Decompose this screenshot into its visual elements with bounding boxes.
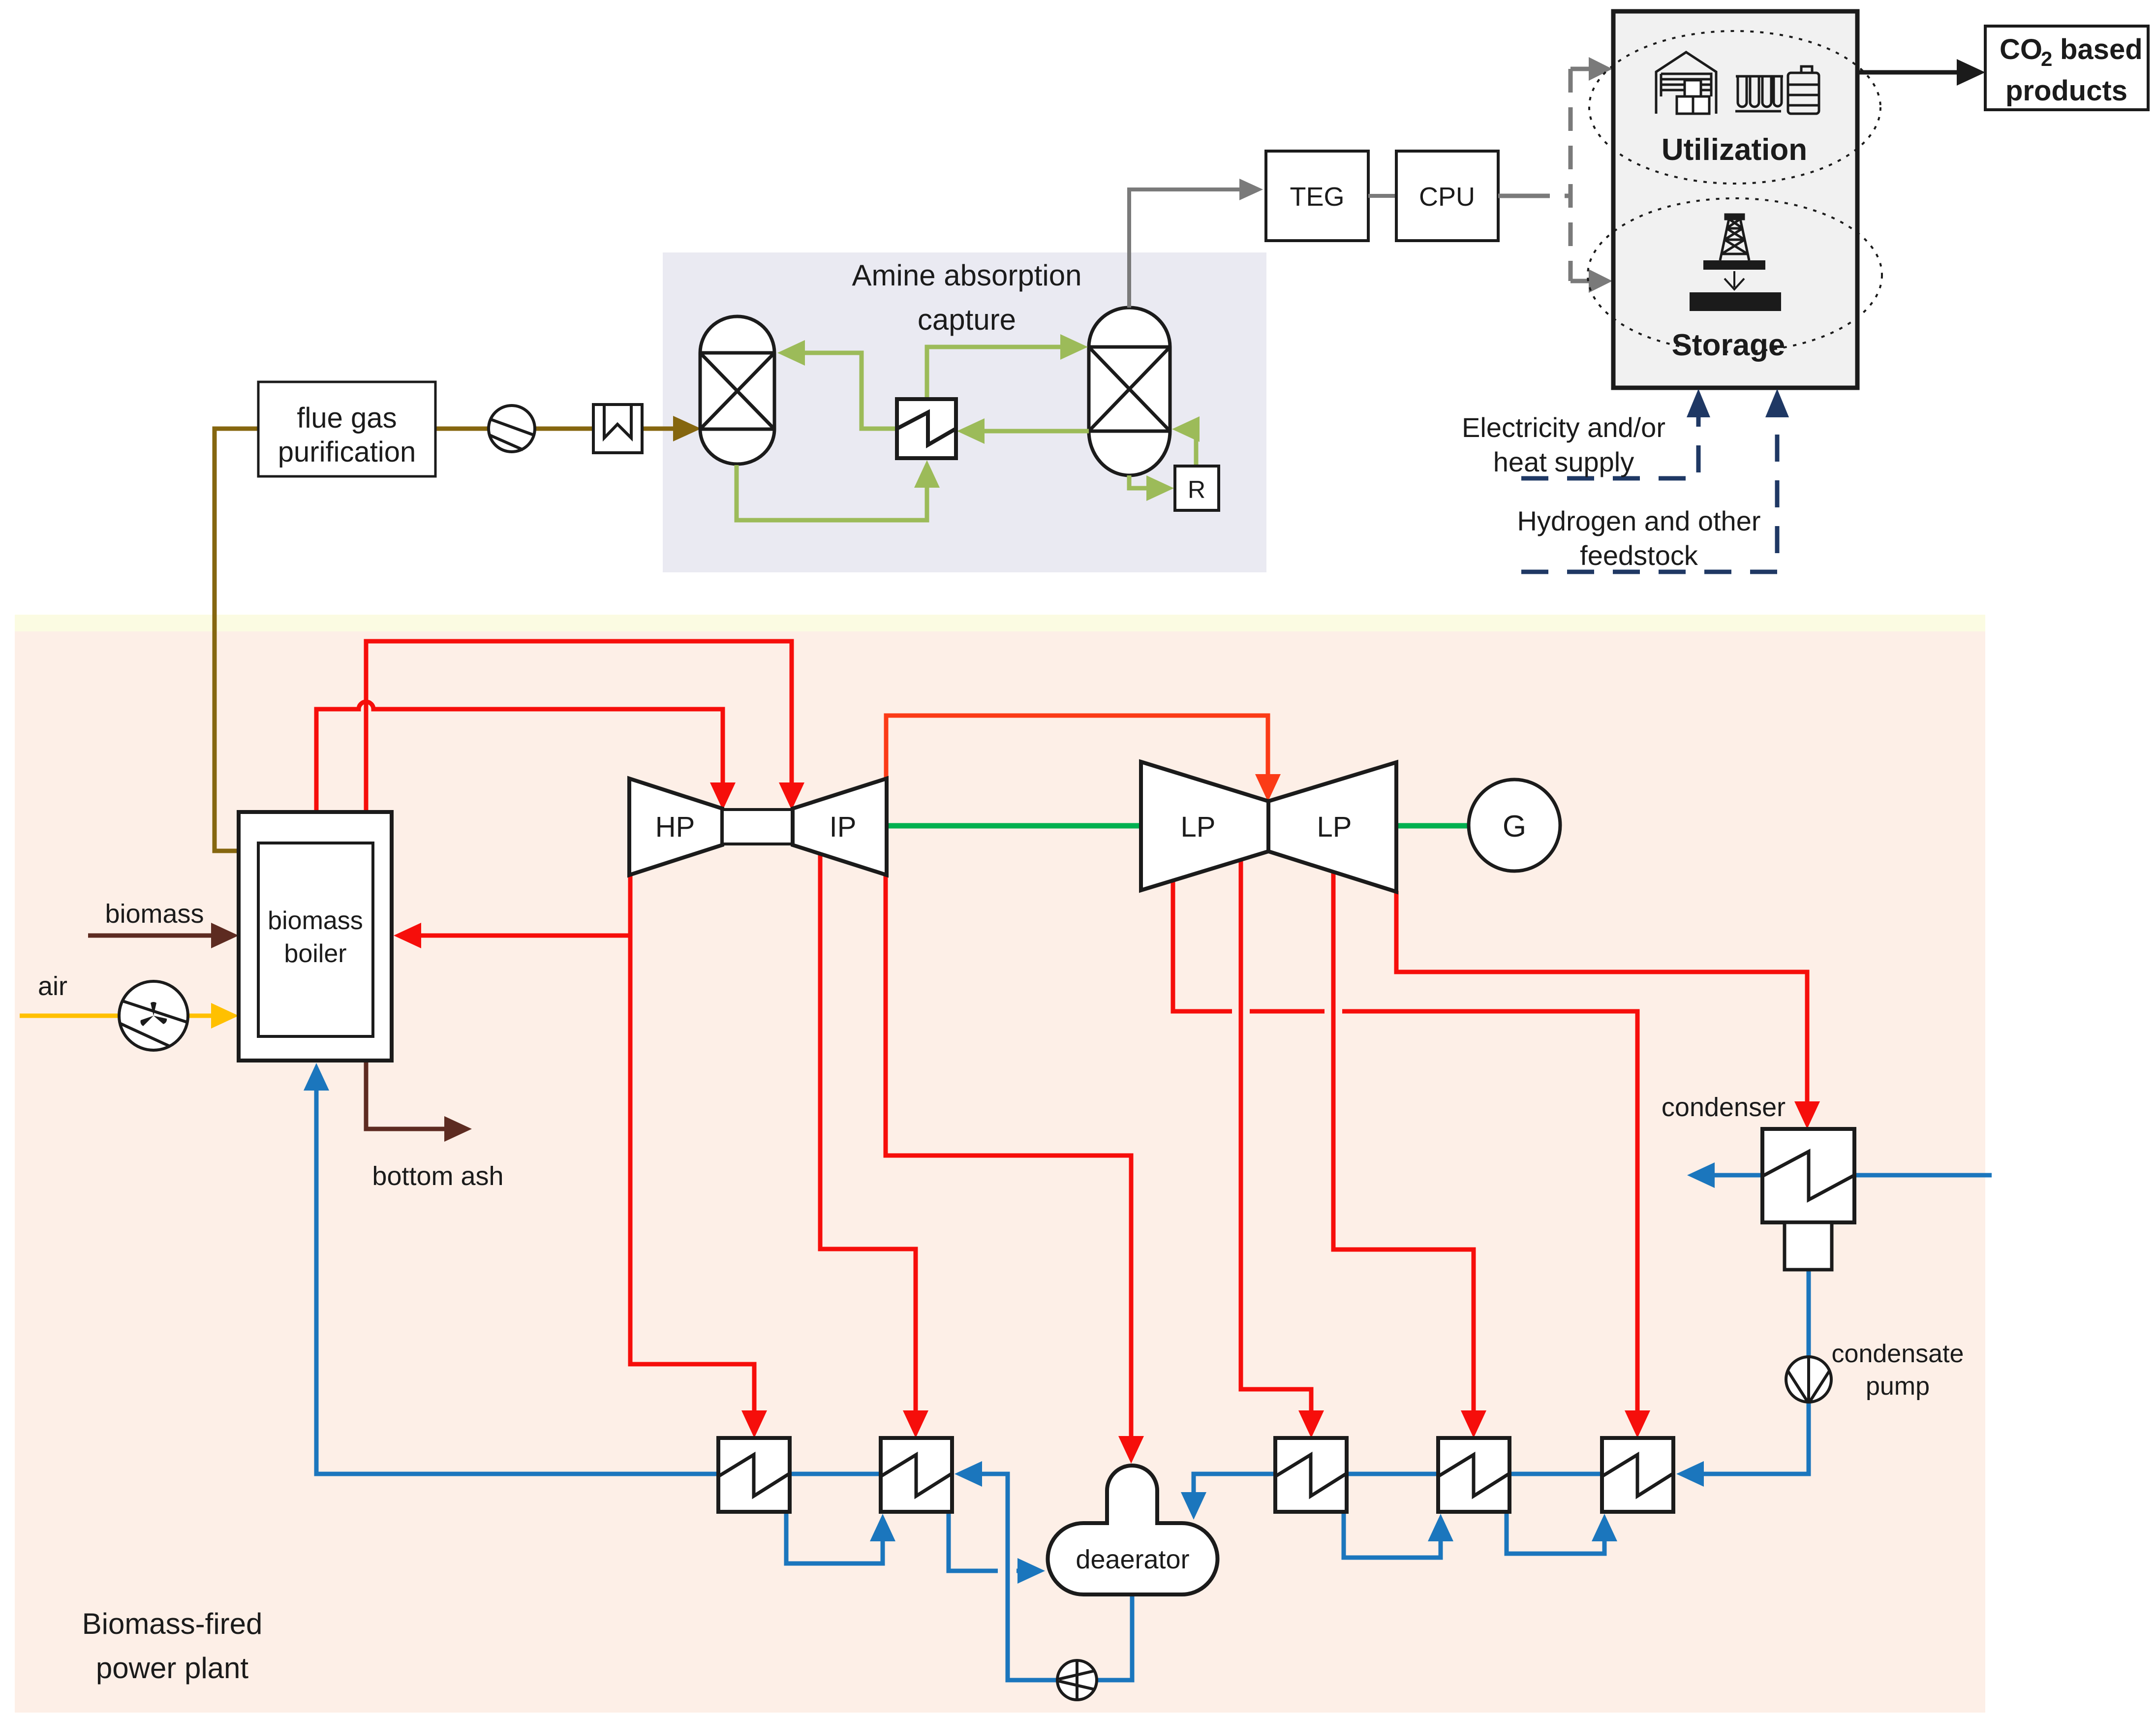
FWH6 feedwater heater: [1602, 1438, 1673, 1512]
wire green generator shaft IP to LP: [887, 823, 1141, 829]
generator G circle: [1469, 780, 1560, 871]
HP IP connecting rect: [722, 810, 793, 844]
TEG box: [1266, 151, 1368, 241]
HP turbine: [629, 779, 722, 875]
wire navy dashed hydrogen feedstock arrow: [1521, 416, 1777, 572]
svg-text:Storage: Storage: [1672, 328, 1786, 362]
storage reservoir black bar: [1690, 292, 1781, 311]
filter symbol box: [593, 405, 642, 453]
svg-text:feedstock: feedstock: [1580, 540, 1698, 571]
wire flue gas olive line from purification box to boiler: [215, 429, 258, 851]
amine heat exchanger: [897, 399, 956, 458]
svg-text:based: based: [2060, 33, 2143, 65]
LP turbine 2: [1268, 762, 1396, 892]
wire flue gas olive line purification to blower: [435, 427, 489, 431]
absorber column: [700, 316, 774, 464]
co2 based products box: [1985, 26, 2148, 110]
wire blue condensate FWH6 to FWH5: [1509, 1472, 1602, 1476]
wire red HP exhaust extraction to FWH1: [630, 936, 754, 1412]
wire gray TEG to CPU connector: [1368, 194, 1396, 198]
derrick platform black bar: [1703, 260, 1765, 270]
wire gray CPU outlet stub: [1498, 194, 1526, 198]
svg-text:biomass: biomass: [105, 899, 204, 929]
wire blue feedwater FWH2 to FWH1: [790, 1472, 881, 1476]
svg-text:TEG: TEG: [1290, 182, 1344, 212]
wire red LP2 exhaust to condenser: [1396, 891, 1807, 1103]
svg-text:LP: LP: [1181, 811, 1216, 843]
wire flue gas olive line blower to filter: [534, 427, 593, 431]
svg-text:Amine absorption: Amine absorption: [852, 259, 1082, 292]
svg-text:Biomass-fired: Biomass-fired: [82, 1607, 263, 1640]
wire green reboiler R return to stripper: [1196, 429, 1198, 466]
wire red IP extraction to FWH2: [820, 855, 916, 1412]
biomass boiler outer box: [239, 812, 392, 1061]
IP turbine: [793, 779, 887, 875]
wire red LP1 extraction to FWH6 with gaps at crossings: [1173, 880, 1637, 1412]
condenser box with zigzag: [1762, 1129, 1854, 1222]
wire green rich amine HX top to stripper top: [927, 347, 1062, 399]
flue gas blower circle: [489, 406, 535, 452]
svg-text:G: G: [1503, 810, 1526, 843]
wire red LP1 extraction to FWH4: [1241, 860, 1311, 1412]
wire orange crossover IP to LP turbines: [886, 716, 1268, 780]
svg-text:condensate: condensate: [1832, 1340, 1964, 1368]
svg-text:products: products: [2005, 75, 2127, 107]
FWH4 feedwater heater: [1275, 1438, 1347, 1512]
wire red cold reheat HP exhaust to boiler: [419, 874, 630, 936]
stripper column: [1089, 308, 1170, 475]
barrel icon: [1787, 66, 1820, 114]
wire blue drain FWH2 to deaerator with gap at pump line: [949, 1512, 1019, 1571]
wire blue feedwater FWH1 to boiler: [316, 1089, 718, 1474]
wire black arrow utilization box to co2 products: [1857, 70, 1961, 75]
svg-text:boiler: boiler: [284, 939, 346, 968]
wire maroon biomass feed arrow: [88, 934, 213, 938]
svg-text:2: 2: [2041, 47, 2052, 70]
condensate pump circle: [1786, 1357, 1831, 1402]
svg-text:Hydrogen and other: Hydrogen and other: [1517, 505, 1760, 536]
wire blue drain FWH5 to FWH6: [1507, 1512, 1604, 1554]
svg-text:power plant: power plant: [96, 1652, 249, 1685]
svg-text:R: R: [1188, 476, 1205, 503]
wire gray dashed CPU to utilization and storage: [1526, 69, 1594, 281]
wire blue condensate FWH4 to deaerator: [1194, 1474, 1275, 1494]
svg-text:biomass: biomass: [268, 906, 363, 935]
air fan circle: [119, 981, 188, 1050]
wire navy dashed electricity supply arrow: [1521, 416, 1698, 478]
svg-text:LP: LP: [1317, 811, 1352, 843]
svg-text:Utilization: Utilization: [1662, 133, 1807, 167]
wire green lean amine HX to absorber top: [803, 353, 897, 429]
svg-text:capture: capture: [918, 303, 1016, 336]
deaerator vessel: [1048, 1466, 1218, 1594]
wire blue cooling water through condenser: [1713, 1173, 1992, 1178]
svg-text:Electricity and/or: Electricity and/or: [1462, 412, 1665, 443]
wire red hot reheat boiler to IP inlet: [366, 641, 792, 813]
FWH5 feedwater heater: [1438, 1438, 1509, 1512]
wire flue gas olive line filter to absorber with arrow: [642, 427, 675, 431]
utilization dotted ellipse: [1589, 31, 1880, 184]
test tubes icon: [1735, 76, 1783, 111]
wire red LP2 extraction to FWH5: [1333, 872, 1474, 1412]
wire green rich amine absorber bottom to HX bottom: [737, 465, 927, 520]
FWH1 feedwater heater: [718, 1438, 790, 1512]
svg-text:air: air: [38, 971, 67, 1001]
wire green stripper bottoms to HX hot side: [983, 429, 1089, 434]
wire blue condensate FWH5 to FWH4: [1347, 1472, 1438, 1476]
CPU box: [1396, 151, 1498, 241]
svg-text:heat supply: heat supply: [1493, 446, 1634, 477]
background lavender rect amine absorption capture: [663, 252, 1266, 572]
svg-text:bottom ash: bottom ash: [372, 1161, 503, 1191]
wire green stripper bottom to reboiler R: [1129, 475, 1148, 488]
wire yellow air line through fan to boiler: [20, 1014, 213, 1018]
svg-text:deaerator: deaerator: [1076, 1545, 1189, 1574]
wire blue feedwater deaerator to boiler feed pump and FWH2: [980, 1474, 1132, 1680]
condenser hotwell box: [1785, 1222, 1832, 1270]
LP turbine 1: [1141, 762, 1268, 890]
svg-text:CO: CO: [2000, 33, 2042, 65]
reboiler R box: [1175, 466, 1219, 510]
svg-text:HP: HP: [655, 811, 695, 843]
background pink rect biomass-fired power plant: [15, 631, 1985, 1713]
warehouse icon: [1656, 52, 1716, 114]
wire blue condenser hotwell to condensate pump to FWH6: [1702, 1270, 1809, 1474]
wire maroon bottom ash line: [366, 1062, 446, 1129]
wire red main steam boiler to HP inlet with hop over reheat line: [316, 702, 723, 813]
boiler feed pump circle: [1057, 1660, 1097, 1700]
wire gray CO2 from stripper to TEG: [1129, 189, 1247, 308]
wire blue drain FWH4 to FWH5: [1344, 1512, 1441, 1558]
wire red IP extraction to deaerator: [886, 874, 1131, 1438]
svg-text:purification: purification: [278, 436, 416, 468]
storage icon down arrow: [1725, 271, 1744, 289]
svg-text:IP: IP: [830, 811, 857, 843]
wire blue drain FWH1 to FWH2: [786, 1512, 883, 1563]
FWH2 feedwater heater: [881, 1438, 952, 1512]
svg-text:CPU: CPU: [1419, 182, 1475, 212]
wire green generator shaft LP to G: [1396, 823, 1469, 829]
oil derrick icon: [1720, 215, 1749, 260]
background pale yellow band of power plant area: [15, 615, 1985, 631]
svg-text:condenser: condenser: [1662, 1093, 1786, 1122]
biomass boiler inner box: [258, 843, 373, 1036]
storage dotted ellipse: [1588, 198, 1882, 352]
flue gas purification box: [258, 382, 435, 476]
svg-text:flue gas: flue gas: [297, 402, 397, 434]
utilization and storage outer box: [1613, 11, 1857, 388]
svg-text:pump: pump: [1866, 1372, 1930, 1401]
